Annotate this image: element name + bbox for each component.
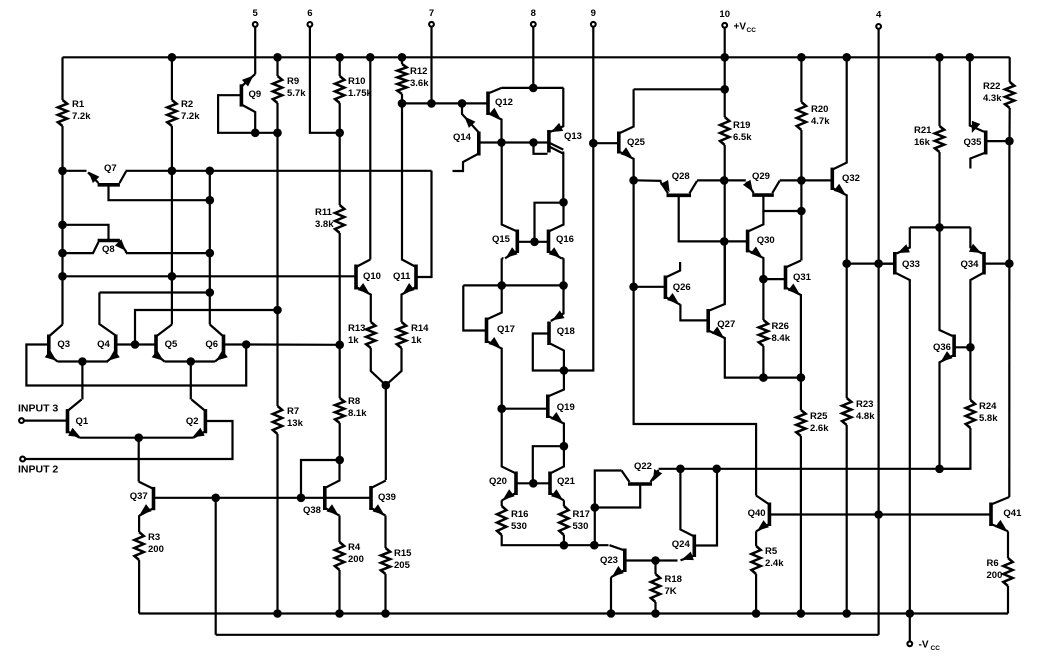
node Q8 emitter junction xyxy=(206,249,215,258)
node R2 y276 line xyxy=(168,272,177,281)
node Q26 base tap xyxy=(629,283,638,292)
transistor Q22 xyxy=(628,482,652,486)
svg-text:Q37: Q37 xyxy=(130,491,148,502)
svg-text:205: 205 xyxy=(394,560,411,571)
transistor Q33 xyxy=(893,252,897,275)
svg-text:R22: R22 xyxy=(983,81,1000,92)
wire pin4 vertical xyxy=(877,29,879,635)
transistor Q15 xyxy=(515,230,519,254)
wire R20 top xyxy=(800,57,802,102)
svg-text:8.1k: 8.1k xyxy=(348,408,367,419)
wire Q26 emitter to Q27 base xyxy=(680,304,708,320)
svg-text:8.4k: 8.4k xyxy=(772,333,791,344)
wire Q20 emitter to R16 xyxy=(502,499,503,501)
wire R10 top xyxy=(339,57,341,76)
node x210 y292 junction xyxy=(206,288,215,297)
wire base loop to Q13 collector xyxy=(535,203,564,242)
svg-text:Q23: Q23 xyxy=(600,555,618,566)
svg-text:Q5: Q5 xyxy=(165,339,178,350)
transistor Q17 xyxy=(485,318,489,344)
svg-text:Q17: Q17 xyxy=(497,324,515,335)
node R12 top xyxy=(398,53,407,62)
wire Q22 emitter line xyxy=(659,468,970,470)
transistor Q34 xyxy=(982,252,986,275)
pin 7 terminal xyxy=(429,22,434,27)
svg-text:R7: R7 xyxy=(287,406,299,417)
svg-text:INPUT 2: INPUT 2 xyxy=(18,464,58,476)
input 2 terminal xyxy=(20,457,25,462)
resistor R14 xyxy=(397,322,406,348)
transistor Q10 xyxy=(354,265,358,290)
input 3 terminal xyxy=(19,418,24,423)
node left rail Q8 base xyxy=(58,249,67,258)
wire pin7 down xyxy=(430,27,432,103)
node Q9 bottom xyxy=(251,129,260,138)
wire Q31 base line xyxy=(763,278,785,280)
wire R23 bottom xyxy=(846,425,848,614)
svg-text:Q7: Q7 xyxy=(104,163,117,174)
resistor R15 xyxy=(381,548,390,574)
wire R7 bottom xyxy=(276,434,278,614)
transistor Q37 xyxy=(152,487,156,510)
transistor Q13 (dual collector) xyxy=(547,130,551,153)
wire y310 line xyxy=(135,310,278,345)
resistor R1 xyxy=(58,100,67,126)
wire R10 down to R11 xyxy=(339,103,341,205)
transistor Q29 xyxy=(752,193,774,197)
node R9 bottom xyxy=(273,129,282,138)
wire pin8 down xyxy=(532,27,534,88)
node Q37 collector junction xyxy=(211,494,220,503)
node R19 y241 junction xyxy=(720,237,729,246)
svg-text:Q8: Q8 xyxy=(102,244,115,255)
wire Q13 base-collector loop xyxy=(534,143,548,154)
resistor R2 xyxy=(167,100,176,126)
svg-text:R12: R12 xyxy=(410,66,427,77)
node R20 y180 junction xyxy=(797,176,806,185)
svg-text:R26: R26 xyxy=(772,321,789,332)
resistor R12 xyxy=(397,64,406,94)
svg-text:6.5k: 6.5k xyxy=(733,132,752,143)
wire Q40 Q41 base line xyxy=(769,513,991,515)
node rail R18 xyxy=(651,609,660,618)
svg-text:R4: R4 xyxy=(348,542,361,553)
transistor Q38 xyxy=(323,486,327,510)
wire +Vcc top rail xyxy=(63,56,1010,58)
transistor Q36 xyxy=(952,335,956,358)
node Q1 Q2 emitter xyxy=(134,433,143,442)
wire x210 vertical xyxy=(209,171,211,325)
wire Q37 emitter to R3 xyxy=(138,515,140,532)
svg-text:7: 7 xyxy=(429,8,434,19)
resistor R17 xyxy=(559,506,568,535)
transistor Q6 xyxy=(222,335,226,357)
node R10 pin6 junction xyxy=(335,129,344,138)
svg-text:Q36: Q36 xyxy=(933,342,951,353)
resistor R11 xyxy=(335,205,344,233)
svg-text:Q24: Q24 xyxy=(672,539,691,550)
svg-text:7.2k: 7.2k xyxy=(181,111,200,122)
node Q18 collector node xyxy=(560,366,569,375)
wire y545 line xyxy=(564,544,609,546)
node R8 Q38 collector xyxy=(335,456,344,465)
wire R24 bottom jog xyxy=(940,428,971,469)
node Q15 emitter Q17 collector xyxy=(497,281,506,290)
transistor Q30 xyxy=(746,230,750,253)
svg-text:7K: 7K xyxy=(665,586,677,597)
svg-text:2.6k: 2.6k xyxy=(810,423,829,434)
wire Q36 base line xyxy=(954,346,970,348)
wire R21 bottom xyxy=(938,152,940,227)
svg-text:Q10: Q10 xyxy=(363,271,381,282)
transistor Q27 xyxy=(706,309,710,333)
node Q32 collector rail xyxy=(842,53,851,62)
node R10 top xyxy=(335,53,344,62)
wire Q10 collector up xyxy=(369,57,371,259)
svg-text:R19: R19 xyxy=(733,120,750,131)
svg-text:Q32: Q32 xyxy=(842,173,860,184)
wire R4 bottom xyxy=(338,570,340,614)
wire y292 line xyxy=(99,293,115,336)
wire y292 horizontal xyxy=(99,291,209,293)
wire R21 top xyxy=(938,57,940,126)
transistor Q18 xyxy=(547,322,551,346)
node left rail y276 xyxy=(58,272,67,281)
wire R2 top xyxy=(171,57,173,100)
svg-text:200: 200 xyxy=(348,554,364,565)
wire Q25 collector line xyxy=(634,88,725,90)
resistor R10 xyxy=(335,76,344,103)
node R20 top xyxy=(797,53,806,62)
wire R26 bottom xyxy=(762,346,764,378)
wire R5 bottom xyxy=(755,574,757,614)
node Q24 collector junction xyxy=(676,465,685,474)
wire emitters to Q37 xyxy=(138,438,140,482)
svg-text:5.8k: 5.8k xyxy=(979,413,998,424)
wire Q26 base line xyxy=(634,286,666,288)
pin 4 terminal xyxy=(876,24,881,29)
svg-text:1k: 1k xyxy=(411,335,422,346)
node left rail Q7 emitter xyxy=(58,167,67,176)
svg-text:10: 10 xyxy=(719,9,730,20)
wire Q12 emitter line y142 xyxy=(479,141,549,143)
wire Q13 emitter feed xyxy=(551,88,564,132)
wire Q23 emitter down xyxy=(610,577,612,613)
svg-text:R2: R2 xyxy=(181,99,193,110)
svg-text:Q1: Q1 xyxy=(76,416,89,427)
node Q36 emitter junction xyxy=(935,465,944,474)
node rail R15 xyxy=(381,609,390,618)
wire Q29 collector line xyxy=(780,179,833,181)
svg-text:Q20: Q20 xyxy=(489,476,507,487)
transistor Q21 xyxy=(548,472,552,496)
wire Q17 base loop xyxy=(463,285,486,330)
wire R15 bottom xyxy=(384,574,386,614)
svg-text:Q31: Q31 xyxy=(793,272,812,283)
node Q29 base junction xyxy=(797,207,806,216)
node Q17 emitter Q19 base xyxy=(497,404,506,413)
wire Q7 base line xyxy=(126,170,432,172)
wire left rail top xyxy=(61,57,63,100)
node pin8 Q12 collector xyxy=(529,84,538,93)
node Q16 emitter Q18 emitter xyxy=(559,281,568,290)
transistor Q8 xyxy=(98,239,120,243)
node R22 Q35 junction xyxy=(1005,137,1014,146)
svg-text:530: 530 xyxy=(511,521,527,532)
transistor Q9 xyxy=(240,84,244,106)
node Q25 emitter node xyxy=(629,176,638,185)
wire Q8 emitter line xyxy=(126,252,210,254)
svg-text:Q40: Q40 xyxy=(748,508,766,519)
wire Q5 Q6 emitters xyxy=(165,360,216,362)
wire R19 top xyxy=(724,57,726,117)
svg-text:Q25: Q25 xyxy=(627,137,646,148)
wire R18 bottom xyxy=(654,602,656,614)
svg-text:R18: R18 xyxy=(665,574,682,585)
wire R17 bottom xyxy=(563,535,565,545)
wire Q36 collector up xyxy=(940,227,953,336)
svg-text:R8: R8 xyxy=(348,396,360,407)
node R2 top xyxy=(168,53,177,62)
resistor R18 xyxy=(651,574,660,602)
svg-text:200: 200 xyxy=(148,544,164,555)
resistor R8 xyxy=(335,398,344,423)
svg-text:R13: R13 xyxy=(348,323,365,334)
node Q32 emitter junction xyxy=(842,259,851,268)
wire R22 bottom xyxy=(1008,108,1010,141)
transistor Q35 xyxy=(984,131,988,155)
node rail -Vcc terminal xyxy=(906,609,915,618)
wire Q38 emitter to R4 xyxy=(338,516,340,543)
svg-text:Q3: Q3 xyxy=(57,339,70,350)
wire Q39 emitter to R15 xyxy=(384,516,386,549)
transistor Q5 xyxy=(154,335,158,357)
wire R6 bottom xyxy=(1007,586,1009,614)
wire Q34 base line xyxy=(984,263,1009,265)
svg-text:R25: R25 xyxy=(810,411,828,422)
node Q3 Q4 emitter xyxy=(78,357,87,366)
node left rail Q8 collector xyxy=(58,221,67,230)
wire Q34 collector to R24 xyxy=(969,347,971,400)
svg-text:Q6: Q6 xyxy=(205,339,218,350)
svg-text:1.75k: 1.75k xyxy=(348,88,372,99)
wire loop to R11 node xyxy=(246,343,340,345)
node Q36 base junction xyxy=(966,343,975,352)
wire Q15 emitter down xyxy=(502,257,504,259)
node Q7 base rail junction xyxy=(206,167,215,176)
node Q6 base loop junction xyxy=(242,340,251,349)
svg-text:R17: R17 xyxy=(573,509,590,520)
wire R25 top wire xyxy=(800,378,802,410)
wire Q4 Q5 base line xyxy=(116,343,156,345)
pin 8 terminal xyxy=(531,22,536,27)
resistor R21 xyxy=(935,126,944,152)
wire pin9 down to Q18 collector node xyxy=(564,27,593,370)
node Q35 emitter rail xyxy=(966,53,975,62)
svg-text:Q21: Q21 xyxy=(557,476,576,487)
transistor Q41 xyxy=(989,503,993,527)
node Q5 Q6 emitter xyxy=(187,357,196,366)
wire Q33 base line xyxy=(879,263,895,265)
resistor R20 xyxy=(797,102,806,130)
node R21 top xyxy=(935,53,944,62)
resistor R26 xyxy=(759,320,768,346)
node Q22 loop junction xyxy=(591,503,600,512)
svg-text:+V: +V xyxy=(734,22,747,33)
wire Q15 Q16 base line xyxy=(517,241,548,243)
svg-text:Q39: Q39 xyxy=(378,492,396,503)
svg-text:4.3k: 4.3k xyxy=(983,93,1002,104)
transistor Q24 xyxy=(692,535,696,558)
transistor Q39 xyxy=(369,486,373,510)
wire second rail xyxy=(216,634,879,636)
wire R20 bottom xyxy=(800,130,802,261)
svg-text:6: 6 xyxy=(307,8,312,19)
wire R16 bottom xyxy=(502,535,564,545)
svg-text:Q13: Q13 xyxy=(564,131,582,142)
svg-text:5.7k: 5.7k xyxy=(287,88,306,99)
wire Q37 base line xyxy=(154,497,372,499)
svg-text:INPUT 3: INPUT 3 xyxy=(18,403,58,415)
svg-text:Q4: Q4 xyxy=(97,339,110,350)
wire input3 to Q1 base xyxy=(24,420,67,422)
transistor Q11 xyxy=(414,265,418,290)
svg-text:3.8k: 3.8k xyxy=(315,219,334,230)
svg-text:Q2: Q2 xyxy=(186,416,199,427)
svg-text:7.2k: 7.2k xyxy=(72,111,91,122)
transistor Q1 xyxy=(66,409,70,433)
resistor R3 xyxy=(134,532,143,560)
wire Q24 base up xyxy=(694,469,717,546)
wire Q11 base from Q7 line xyxy=(416,171,432,277)
wire R19 bottom to Q27 xyxy=(724,145,726,304)
wire -Vcc rail xyxy=(139,612,1008,614)
pin 5 terminal xyxy=(253,22,258,27)
node R18 top xyxy=(651,556,660,565)
svg-text:9: 9 xyxy=(591,8,596,19)
pin 9 terminal xyxy=(591,22,596,27)
svg-text:Q9: Q9 xyxy=(249,89,262,100)
transistor Q25 xyxy=(617,132,621,154)
transistor Q32 xyxy=(830,168,834,190)
node pin10 rail xyxy=(720,53,729,62)
node R16 R17 join xyxy=(560,541,569,550)
svg-text:Q14: Q14 xyxy=(453,132,472,143)
wire Q16 emitter down xyxy=(562,257,564,259)
svg-text:Q22: Q22 xyxy=(634,461,652,472)
node R26 bottom junction xyxy=(759,373,768,382)
wire R9 top xyxy=(276,57,278,76)
wire R18 top wire xyxy=(654,561,656,575)
svg-text:8: 8 xyxy=(531,8,536,19)
node rail Q23 xyxy=(607,609,616,618)
svg-text:Q35: Q35 xyxy=(964,137,983,148)
svg-text:Q30: Q30 xyxy=(757,235,775,246)
node rail R5 xyxy=(752,609,761,618)
transistor Q31 xyxy=(784,266,788,290)
wire y263 line xyxy=(847,263,895,265)
resistor R23 xyxy=(842,398,851,425)
svg-text:Q28: Q28 xyxy=(672,171,690,182)
resistor R24 xyxy=(966,400,975,428)
node y545 Q22 junction xyxy=(590,541,599,550)
node Q7 collector junction xyxy=(206,196,215,205)
svg-text:3.6k: 3.6k xyxy=(410,78,429,89)
transistor Q2 xyxy=(204,409,208,433)
resistor R19 xyxy=(720,117,729,145)
svg-text:Q12: Q12 xyxy=(495,97,513,108)
resistor R25 xyxy=(796,410,805,436)
resistor R22 xyxy=(1005,82,1014,108)
wire Q19 base line xyxy=(502,408,548,410)
svg-text:R14: R14 xyxy=(411,323,429,334)
node rail R25 xyxy=(797,609,806,618)
wire Q21 emitter to R17 xyxy=(563,500,565,506)
svg-text:16k: 16k xyxy=(914,137,931,148)
wire base line y103 xyxy=(402,102,488,104)
wire Q1 collector to emitters xyxy=(81,362,83,400)
node Q13 collector junction xyxy=(559,198,568,207)
wire Q33 Q34 emitter line xyxy=(910,226,971,228)
resistor R9 xyxy=(273,76,282,103)
svg-text:R5: R5 xyxy=(765,546,778,557)
wire Q41 emitter to R6 xyxy=(1007,531,1009,558)
svg-text:CC: CC xyxy=(747,27,757,34)
wire y377 line xyxy=(763,377,801,379)
wire R12 bottom to Q11 collector xyxy=(401,94,403,261)
pin 10 terminal +Vcc xyxy=(722,23,727,28)
svg-text:R9: R9 xyxy=(287,76,299,87)
svg-text:R20: R20 xyxy=(811,104,828,115)
wire Q3 Q6 base loop xyxy=(26,345,246,386)
svg-text:Q16: Q16 xyxy=(556,234,574,245)
node Q14 emitter tap xyxy=(458,99,467,108)
svg-text:Q26: Q26 xyxy=(673,282,691,293)
svg-text:Q34: Q34 xyxy=(961,259,980,270)
node Q19 emitter node xyxy=(560,442,569,451)
-Vcc terminal xyxy=(909,614,911,642)
svg-text:R15: R15 xyxy=(394,548,412,559)
svg-text:R23: R23 xyxy=(856,399,873,410)
node R11 base line junction xyxy=(335,341,344,350)
transistor Q23 xyxy=(623,549,627,573)
node pin4 base junction xyxy=(874,510,883,519)
svg-text:Q41: Q41 xyxy=(1003,508,1022,519)
svg-text:Q19: Q19 xyxy=(557,402,575,413)
wire R2 to Q5 collector xyxy=(171,126,173,325)
resistor R5 xyxy=(751,546,760,574)
svg-text:R1: R1 xyxy=(72,99,85,110)
wire Q40 emitter to R5 xyxy=(755,531,757,546)
node Q34 base junction xyxy=(1005,259,1014,268)
svg-text:4: 4 xyxy=(876,10,882,21)
transistor Q28 xyxy=(667,194,692,198)
svg-text:1k: 1k xyxy=(348,335,359,346)
resistor R4 xyxy=(335,542,344,570)
svg-text:Q11: Q11 xyxy=(393,271,411,282)
svg-text:Q33: Q33 xyxy=(902,259,920,270)
wire common to Q39 collector xyxy=(385,385,387,480)
wire R13 R14 join xyxy=(371,348,386,385)
wire left rail middle xyxy=(61,126,63,325)
svg-text:2.4k: 2.4k xyxy=(765,558,784,569)
wire R25 bottom xyxy=(800,436,802,614)
wire R8 bottom xyxy=(339,423,341,460)
wire R9 bottom to R7 xyxy=(276,103,278,406)
node pin7 junction xyxy=(427,99,436,108)
wire Q30 base line xyxy=(724,240,747,242)
transistor Q3 xyxy=(47,335,51,357)
